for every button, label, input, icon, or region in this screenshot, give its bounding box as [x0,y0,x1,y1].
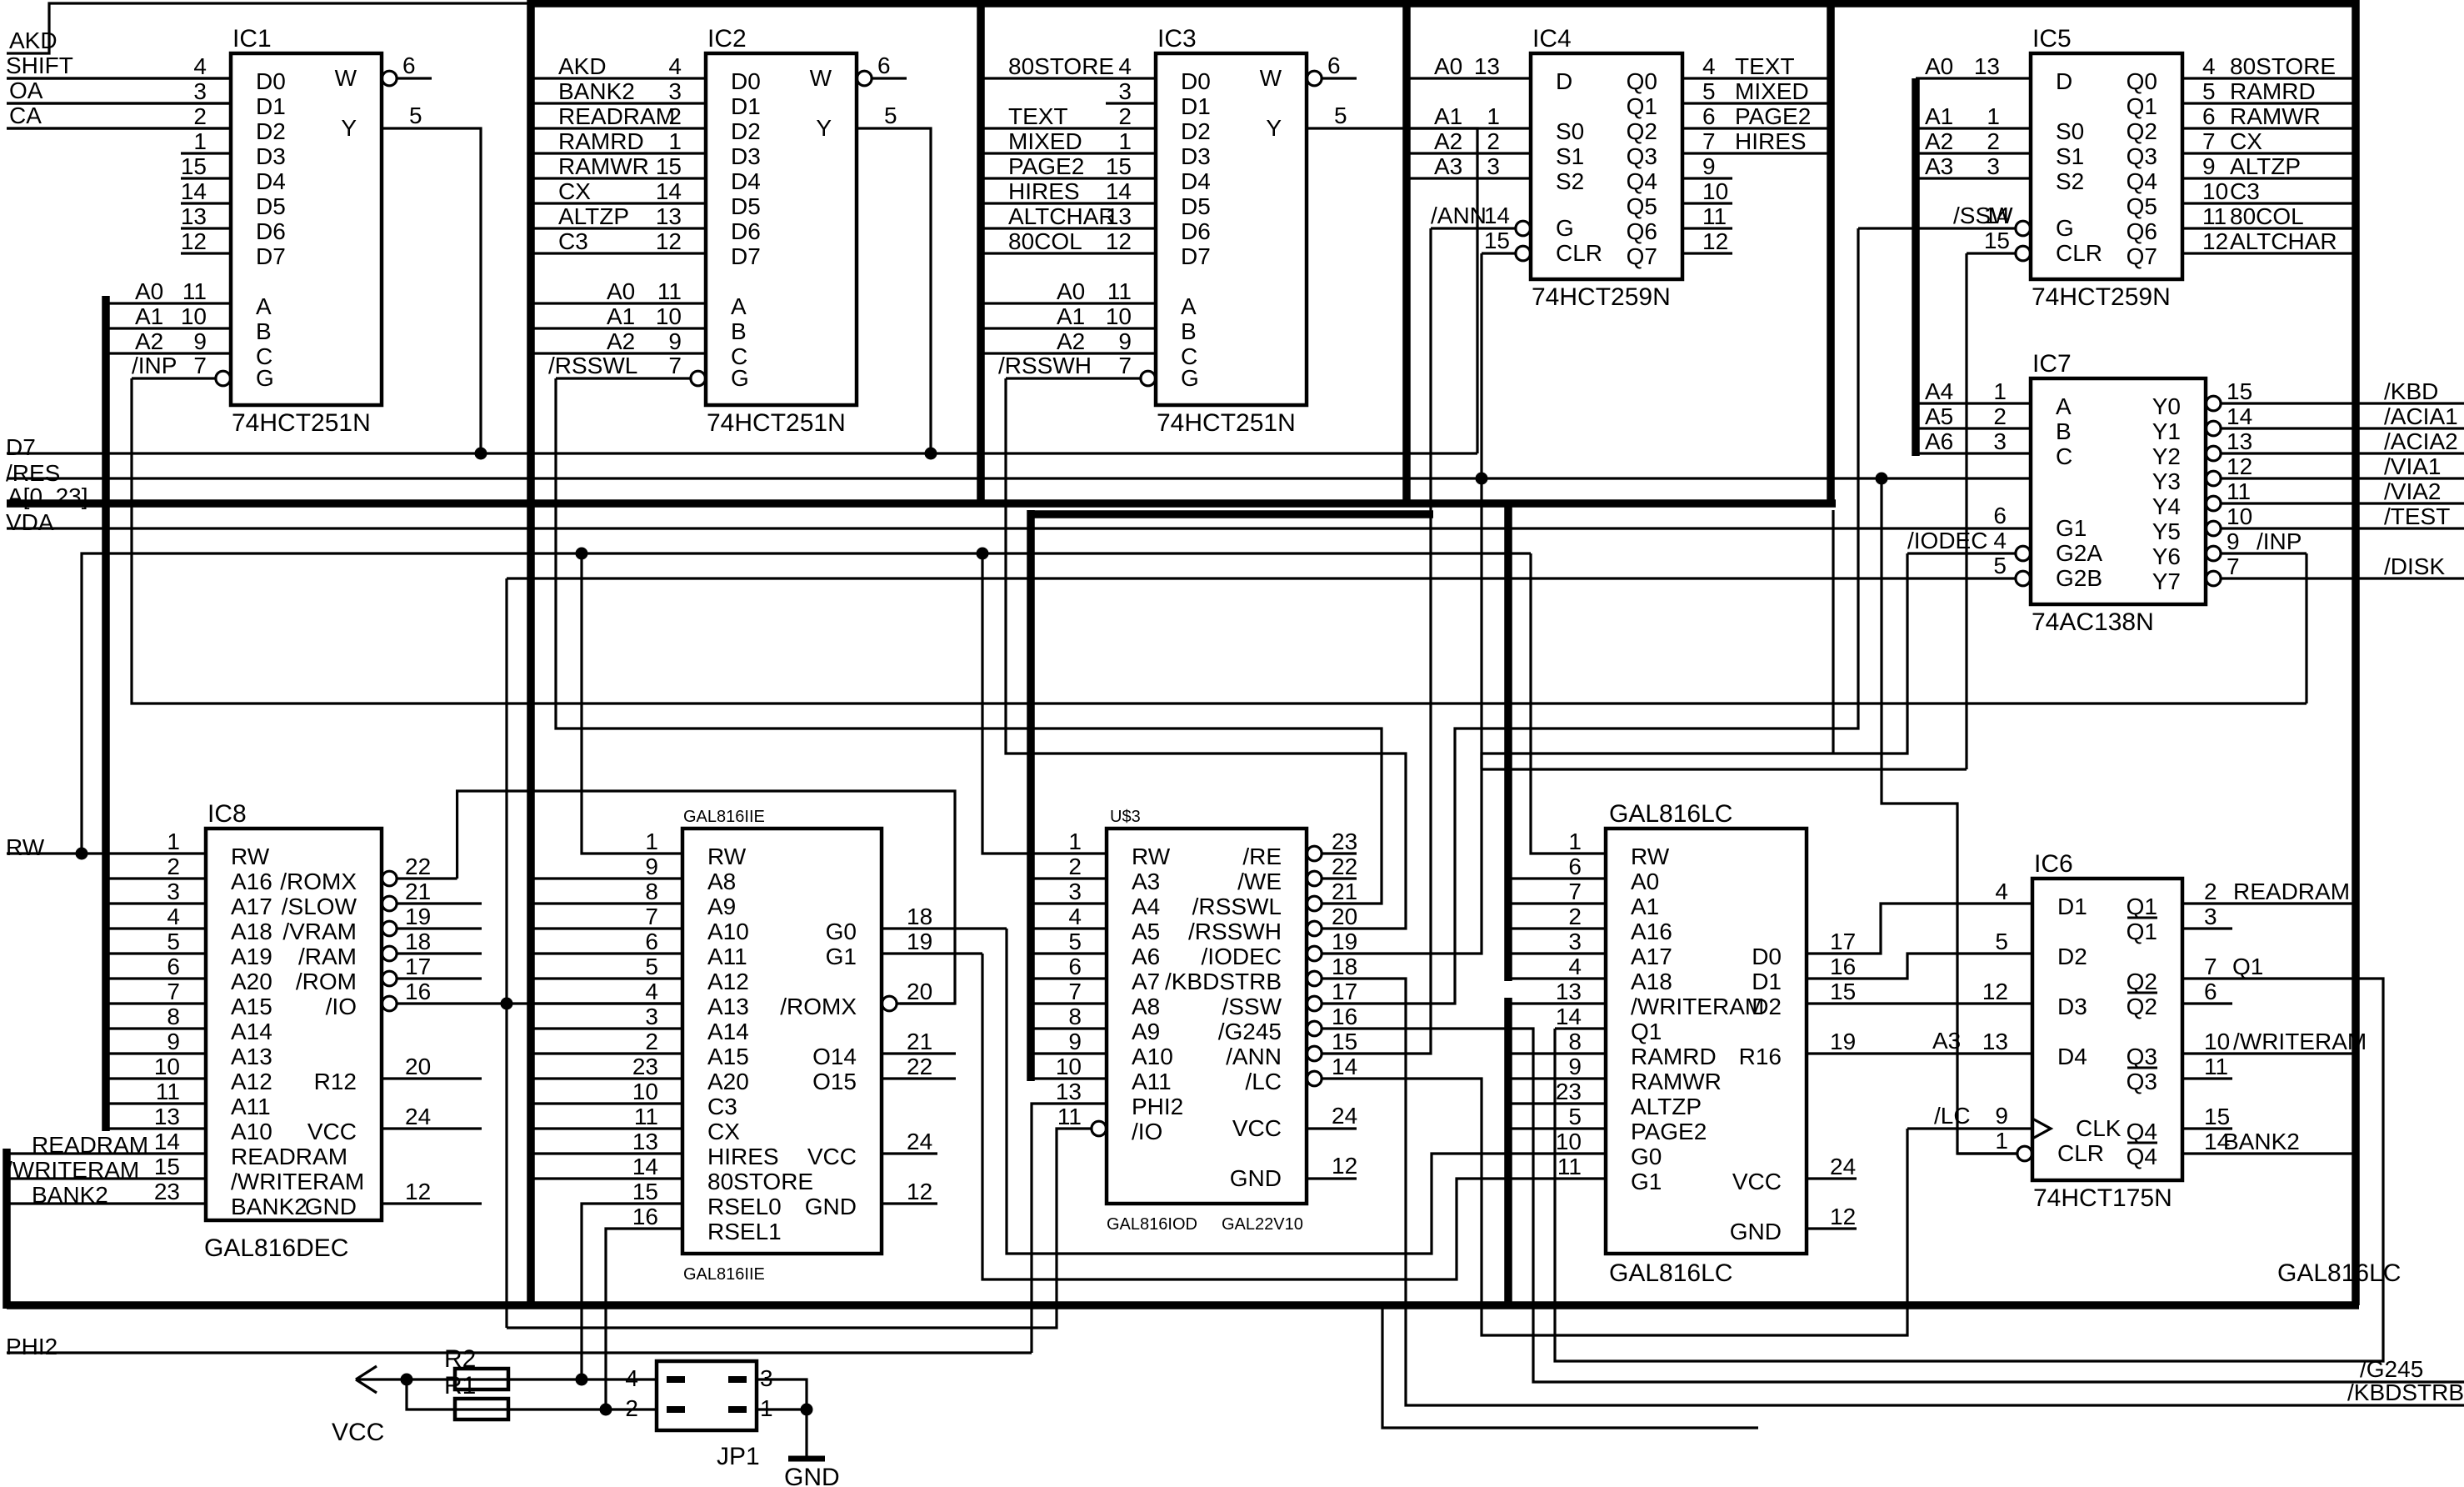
svg-text:A11: A11 [231,1094,271,1119]
svg-text:A20: A20 [707,1069,749,1094]
svg-text:15: 15 [2227,378,2252,404]
wire JP1 pin3 to GND [757,1379,807,1409]
svg-text:Q7: Q7 [1627,243,1657,269]
svg-text:RSEL0: RSEL0 [707,1194,782,1219]
svg-text:14: 14 [1484,203,1510,228]
svg-text:VCC: VCC [332,1419,384,1446]
svg-text:RW: RW [231,844,270,869]
svg-text:12: 12 [1332,1153,1357,1179]
IC U$3 pin 9 A10 [1031,1052,1107,1054]
wire /G245 route [1357,1029,2464,1382]
IC GAL816IIE pin 20 /ROMX [882,996,897,1011]
IC IC8 pin 6 A20 [106,977,206,979]
IC IC4 pin 3 S2 A3 [1407,177,1531,179]
svg-text:9: 9 [645,854,658,879]
svg-text:Q7: Q7 [2127,243,2157,269]
svg-text:2: 2 [1487,128,1500,154]
svg-text:80STORE: 80STORE [2230,53,2336,79]
svg-text:CA: CA [9,103,42,128]
power VCC arrow [356,1378,407,1380]
wire GND drop [805,1409,807,1459]
svg-text:A17: A17 [231,894,272,919]
svg-text:D1: D1 [731,93,761,119]
svg-text:A7: A7 [1132,969,1160,994]
IC IC8 pin 17 /ROM [382,971,397,986]
IC IC3 pin 9 C A2 [981,352,1156,354]
svg-text:D: D [2056,68,2072,94]
IC IC1 pin 2 D2 [7,127,231,129]
svg-text:G1: G1 [2056,515,2087,541]
svg-text:D4: D4 [731,168,761,194]
svg-text:24: 24 [405,1104,431,1129]
svg-text:22: 22 [907,1054,932,1079]
IC IC8 pin 7 A15 [106,1002,206,1004]
svg-text:13: 13 [2227,428,2252,454]
IC GAL816IIE pin 6 A11 [531,952,682,954]
IC IC3 pin 2 D2 TEXT [981,127,1156,129]
IC GAL816LC pin 17 D0 [1807,904,2032,954]
IC GAL816IIE pin 7 A10 [531,927,682,929]
svg-text:A4: A4 [1132,894,1160,919]
IC IC4 pin 15 CLR [1482,252,1516,254]
svg-text:Q2: Q2 [2127,969,2157,994]
svg-text:D7: D7 [256,243,286,269]
svg-text:7: 7 [2227,553,2240,579]
svg-text:PAGE2: PAGE2 [1735,103,1811,129]
IC IC7 pin 7 Y7 /DISK [2207,571,2222,586]
IC GAL816IIE pin 14 80STORE [531,1177,682,1179]
svg-text:VCC: VCC [1232,1115,1282,1141]
svg-text:AKD: AKD [558,53,607,79]
IC IC4 pin 1 S0 A1 [1407,127,1531,129]
svg-text:14: 14 [2227,403,2252,429]
svg-text:23: 23 [632,1054,658,1079]
svg-text:4: 4 [1068,904,1082,929]
svg-text:15: 15 [1984,228,2010,253]
IC GAL816IIE pin 13 HIRES [531,1152,682,1154]
svg-text:A2: A2 [607,328,635,354]
junction RSEL1-JP1 [600,1404,612,1416]
svg-text:2: 2 [1568,904,1582,929]
svg-text:GAL816IIE: GAL816IIE [683,808,765,826]
IC IC4 pin 4 Q0 TEXT [1682,77,1831,79]
IC U$3 pin 13 PHI2 [1032,1104,1107,1353]
svg-text:2: 2 [645,1029,658,1054]
svg-text:1: 1 [1987,103,2000,129]
svg-text:10: 10 [181,303,207,329]
svg-text:/VRAM: /VRAM [282,919,357,944]
svg-text:5: 5 [1334,103,1347,128]
svg-text:/ROMX: /ROMX [280,869,357,894]
svg-text:/WRITERAM: /WRITERAM [231,1169,364,1194]
svg-text:GND: GND [805,1194,857,1219]
svg-text:D: D [1556,68,1572,94]
svg-text:/TEST: /TEST [2384,503,2450,529]
IC GAL816IIE pin 3 A14 [531,1027,682,1029]
svg-text:24: 24 [907,1129,932,1154]
svg-text:3: 3 [668,78,682,104]
svg-text:80STORE: 80STORE [707,1169,813,1194]
IC IC2 pin 9 C A2 [531,352,706,354]
svg-text:12: 12 [1702,228,1728,254]
svg-text:A: A [2056,393,2072,419]
svg-text:10: 10 [1702,178,1728,204]
IC IC6 pin 14 Q4 BANK2 [2182,1152,2356,1154]
svg-text:6: 6 [1702,103,1716,129]
svg-text:13: 13 [1982,1029,2008,1054]
svg-text:9: 9 [193,328,207,354]
svg-text:24: 24 [1830,1154,1856,1179]
svg-text:ALTZP: ALTZP [1631,1094,1702,1119]
svg-text:/RSSWL: /RSSWL [1192,894,1282,919]
svg-text:/SLOW: /SLOW [282,894,357,919]
svg-text:IC2: IC2 [707,25,747,53]
IC U$3 pin 20 /RSSWH [1307,921,1322,936]
svg-text:3: 3 [645,1004,658,1029]
svg-text:D2: D2 [1181,118,1211,144]
wire /IO bottom [507,1129,1091,1328]
wire Q1 route [1555,979,2383,1361]
wire stub near bus end [1832,510,1834,754]
svg-text:RW: RW [1631,844,1670,869]
svg-text:/IODEC: /IODEC [1907,528,1987,553]
svg-text:Q1: Q1 [2232,954,2263,979]
IC U$3 pin 12 GND [1307,1177,1357,1179]
svg-text:VCC: VCC [807,1144,857,1169]
svg-text:13: 13 [632,1129,658,1154]
IC IC5 pin 4 Q0 80STORE [2182,77,2356,79]
svg-text:4: 4 [1702,53,1716,79]
svg-text:12: 12 [1106,228,1132,254]
IC IC4 pin 7 Q3 HIRES [1682,152,1831,154]
svg-text:IC8: IC8 [207,800,247,828]
svg-text:/DISK: /DISK [2384,553,2445,579]
svg-text:A9: A9 [1132,1019,1160,1044]
junction VCC node [401,1374,413,1386]
svg-text:12: 12 [2202,228,2228,254]
svg-text:Y7: Y7 [2152,568,2181,594]
IC IC5 pin 2 S1 A2 [1916,152,2031,154]
svg-text:9: 9 [1068,1029,1082,1054]
IC IC3 pin 10 B A1 [981,327,1156,329]
svg-text:24: 24 [1332,1103,1357,1129]
svg-text:/KBDSTRB: /KBDSTRB [2347,1379,2464,1405]
svg-text:Q3: Q3 [2127,143,2157,169]
svg-text:READRAM: READRAM [558,103,675,129]
svg-text:D5: D5 [1181,193,1211,219]
svg-text:13: 13 [1556,979,1582,1004]
IC IC8 pin 21 /SLOW [382,896,397,911]
svg-text:D1: D1 [2057,894,2087,919]
bus A-bus horizontal [7,499,1836,508]
IC IC1 pin 6 W [382,71,397,86]
svg-text:A8: A8 [707,869,736,894]
svg-text:4: 4 [1995,879,2008,904]
svg-text:/IO: /IO [326,994,357,1019]
svg-text:14: 14 [1556,1004,1582,1029]
svg-text:D0: D0 [1752,944,1782,969]
IC IC6 pin 11 Q3 [2182,1077,2232,1079]
wire /RES to IC5 CLR [1965,253,1967,769]
IC GAL816LC pin 16 D1 [1807,954,2032,979]
svg-text:5: 5 [2202,78,2216,104]
svg-text:3: 3 [2204,904,2217,929]
junction /IO-IC8 [501,998,513,1010]
svg-text:6: 6 [1568,854,1582,879]
svg-text:9: 9 [1702,153,1716,179]
bus right border [2352,0,2360,1305]
svg-text:16: 16 [632,1204,658,1229]
IC IC5 pin 10 Q5 C3 [2182,202,2356,204]
svg-text:6: 6 [2204,979,2217,1004]
wire RW trunk [82,553,1531,854]
svg-text:2: 2 [1118,103,1132,129]
svg-text:4: 4 [167,904,180,929]
svg-text:1: 1 [645,829,658,854]
IC IC7 pin 12 Y3 /VIA1 [2207,471,2222,486]
IC IC1 pin 1 D3 [181,152,231,154]
svg-text:S1: S1 [2056,143,2084,169]
svg-text:9: 9 [1568,1054,1582,1079]
svg-text:21: 21 [405,879,431,904]
svg-text:Q6: Q6 [2127,218,2157,244]
bus bar x127 [102,296,110,1131]
svg-text:G2A: G2A [2056,540,2102,566]
svg-text:6: 6 [2202,103,2216,129]
IC IC8 pin 12 GND [382,1202,482,1204]
svg-text:/WE: /WE [1237,869,1282,894]
IC IC8 pin 18 /RAM [382,946,397,961]
svg-text:2: 2 [1068,854,1082,879]
connector JP1 box [657,1361,757,1430]
IC IC2 pin 12 D7 C3 [531,252,706,254]
svg-text:20: 20 [1332,904,1357,929]
svg-text:9: 9 [2202,153,2216,179]
svg-text:19: 19 [907,929,932,954]
junction RSEL0-JP1 [576,1374,588,1386]
svg-text:15: 15 [1106,153,1132,179]
svg-text:/ROMX: /ROMX [780,994,857,1019]
IC IC8 pin 16 /IO [382,996,397,1011]
svg-text:D3: D3 [1181,143,1211,169]
bus bar x1810 lower [1504,998,1512,1309]
svg-text:13: 13 [1056,1079,1082,1104]
svg-text:1: 1 [167,829,180,854]
IC IC2 pin 13 D6 ALTZP [531,227,706,229]
svg-text:GAL816DEC: GAL816DEC [204,1234,348,1262]
IC U$3 pin 3 A4 [1031,902,1107,904]
svg-text:14: 14 [1332,1054,1357,1079]
svg-text:14: 14 [656,178,682,204]
svg-text:A1: A1 [135,303,163,329]
svg-text:G0: G0 [1631,1144,1662,1169]
svg-text:RAMWR: RAMWR [1631,1069,1722,1094]
svg-text:MIXED: MIXED [1735,78,1809,104]
connector JP1 pin 2 [667,1406,685,1413]
svg-text:1: 1 [1568,829,1582,854]
svg-text:D3: D3 [2057,994,2087,1019]
svg-text:A2: A2 [1925,128,1953,154]
svg-text:Q4: Q4 [2127,168,2157,194]
svg-text:D0: D0 [256,68,286,94]
svg-text:A0: A0 [1057,278,1085,304]
svg-text:D3: D3 [256,143,286,169]
svg-text:A3: A3 [1132,869,1160,894]
svg-text:14: 14 [181,178,207,204]
wire G1 route [982,954,1606,1279]
svg-text:VCC: VCC [1732,1169,1782,1194]
svg-text:1: 1 [1118,128,1132,154]
svg-text:A10: A10 [707,919,749,944]
svg-text:CLR: CLR [2056,240,2102,266]
svg-text:4: 4 [668,53,682,79]
svg-text:A16: A16 [1631,919,1672,944]
svg-text:R16: R16 [1739,1044,1782,1069]
svg-text:4: 4 [1568,954,1582,979]
svg-text:Q0: Q0 [2127,68,2157,94]
IC IC7 pin 10 Y5 /TEST [2207,521,2222,536]
IC IC8 pin 2 A16 [106,877,206,879]
wire /RES to IC4 CLR [1480,253,1482,769]
IC IC4 pin 6 Q2 PAGE2 [1682,127,1831,129]
wire /ANN route [1357,228,1431,1054]
svg-text:Q2: Q2 [2127,118,2157,144]
junction IC2Y-D7 [925,448,937,460]
svg-text:TEXT: TEXT [1735,53,1795,79]
svg-text:16: 16 [405,979,431,1004]
svg-text:C3: C3 [707,1094,737,1119]
svg-text:74AC138N: 74AC138N [2032,608,2154,636]
IC GAL816LC pin 15 D2 [1807,1002,2032,1004]
svg-text:ALTZP: ALTZP [558,203,629,229]
IC IC5 pin 3 S2 A3 [1916,177,2031,179]
IC IC2 pin 10 B A1 [531,327,706,329]
wire /IO riser [505,578,507,1328]
svg-text:PAGE2: PAGE2 [1631,1119,1707,1144]
IC GAL816LC pin 5 PAGE2 [1508,1127,1606,1129]
svg-text:A15: A15 [707,1044,749,1069]
IC IC5 pin 13 D A0 [1916,77,2031,79]
svg-text:Q4: Q4 [2127,1119,2157,1144]
IC GAL816LC pin 19 R16 [1807,1052,2032,1054]
bus bar x1237 [1027,510,1035,1081]
svg-text:JP1: JP1 [717,1443,760,1470]
svg-text:5: 5 [167,929,180,954]
IC IC2 pin 11 A A0 [531,302,706,304]
IC IC3 pin 13 D6 ALTCHAR [981,227,1156,229]
IC IC5 pin 1 S0 A1 [1916,127,2031,129]
svg-text:D4: D4 [2057,1044,2087,1069]
svg-text:2: 2 [1987,128,2000,154]
svg-text:CX: CX [2230,128,2262,154]
svg-text:VDA: VDA [6,509,54,535]
IC U$3 pin 21 /RSSWL [1307,896,1322,911]
svg-text:11: 11 [156,1079,180,1104]
svg-text:A2: A2 [1434,128,1462,154]
svg-text:23: 23 [1332,829,1357,854]
bus bar x2197 [1827,0,1835,503]
svg-text:GND: GND [305,1194,357,1219]
svg-text:R1: R1 [444,1372,476,1399]
svg-text:R12: R12 [314,1069,357,1094]
svg-text:Y5: Y5 [2152,518,2181,544]
IC IC8 pin 5 A19 [106,952,206,954]
svg-text:74HCT251N: 74HCT251N [1157,409,1296,437]
svg-text:B: B [1181,318,1197,344]
IC IC4 pin 9 Q4 [1682,177,1732,179]
wire /KBDSTRB route [1357,979,2464,1405]
svg-text:D6: D6 [731,218,761,244]
svg-text:6: 6 [402,53,416,78]
IC IC1 pin 12 D7 [181,252,231,254]
svg-text:D3: D3 [731,143,761,169]
svg-text:11: 11 [634,1104,658,1129]
svg-text:8: 8 [1068,1004,1082,1029]
svg-text:11: 11 [182,278,207,304]
svg-text:10: 10 [2202,178,2228,204]
wire JP1 pin1 to GND [757,1408,807,1410]
svg-text:D4: D4 [1181,168,1211,194]
svg-text:14: 14 [1106,178,1132,204]
svg-text:5: 5 [1068,929,1082,954]
svg-text:2: 2 [2204,879,2217,904]
svg-text:/RE: /RE [1242,844,1282,869]
IC GAL816LC pin 12 GND [1807,1227,1857,1229]
IC IC6 pin 15 Q4 [2182,1127,2232,1129]
svg-text:8: 8 [645,879,658,904]
svg-text:/SSW: /SSW [1953,203,2013,228]
svg-text:3: 3 [1568,929,1582,954]
svg-text:9: 9 [1118,328,1132,354]
ground GND symbol [788,1456,825,1462]
svg-text:/VIA2: /VIA2 [2384,478,2441,504]
svg-text:A1: A1 [1057,303,1085,329]
svg-text:GAL816IIE: GAL816IIE [683,1265,765,1284]
IC U$3 pin 19 /IODEC [1307,946,1322,961]
svg-text:A20: A20 [231,969,272,994]
IC GAL816IIE pin 2 A15 [531,1052,682,1054]
svg-text:6: 6 [645,929,658,954]
IC GAL816LC pin 14 Q1 [1555,1027,1606,1029]
svg-text:/IO: /IO [1132,1119,1162,1144]
svg-text:7: 7 [193,353,207,378]
svg-text:GAL816IOD: GAL816IOD [1107,1215,1197,1234]
svg-text:Q1: Q1 [2127,919,2157,944]
svg-text:GND: GND [1730,1219,1782,1244]
svg-text:HIRES: HIRES [1735,128,1807,154]
svg-text:11: 11 [1057,1104,1082,1129]
svg-text:BANK2: BANK2 [558,78,635,104]
svg-text:A0: A0 [607,278,635,304]
svg-text:A15: A15 [231,994,272,1019]
svg-text:VCC: VCC [307,1119,357,1144]
IC IC2 pin 7 G /RSSWL [556,377,691,379]
IC IC4 pin 12 Q7 [1682,252,1732,254]
IC IC6 pin 9 CLK /LC [1907,1127,2032,1129]
wire JP1 pin4 net [407,1378,657,1380]
junction RW-GAL816IIE [576,548,588,560]
IC IC8 pin 20 R12 [382,1077,482,1079]
IC IC7 pin 1 A A4 [1916,402,2031,404]
svg-text:17: 17 [1830,929,1856,954]
svg-text:W: W [810,65,832,91]
IC U$3 pin 2 A3 [1031,877,1107,879]
IC IC1 pin 9 C A2 [106,352,231,354]
IC IC7 box [2031,378,2206,604]
svg-text:CLR: CLR [2057,1140,2104,1166]
svg-text:G1: G1 [1631,1169,1662,1194]
svg-text:13: 13 [181,203,207,229]
